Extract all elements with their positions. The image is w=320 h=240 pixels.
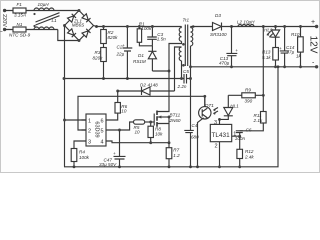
MOSFET BT1 gate bar [153,114,155,126]
svg-text:10k: 10k [155,132,163,137]
svg-text:820k: 820k [93,55,104,60]
svg-text:1k: 1k [296,54,302,59]
resistor R10 [298,37,304,52]
node R13 gnd [274,65,277,68]
svg-text:SR3100: SR3100 [210,32,227,37]
svg-text:R3: R3 [95,50,101,55]
node R8 bottom [149,141,152,144]
svg-text:820k: 820k [108,35,119,40]
wire R4 bottom [73,162,75,167]
node aux bottom [180,77,183,80]
svg-text:1.5n: 1.5n [157,37,166,42]
node collector tap [203,95,206,98]
resistor R2 [101,30,107,44]
wire aux top to D2 [175,47,182,91]
node VCC tap R6 [116,90,119,93]
svg-text:C4: C4 [192,123,198,128]
node C13 top [230,25,233,28]
wire R13 bottom [275,60,277,67]
svg-text:C6: C6 [246,127,252,132]
wire R5 to gate [145,121,155,123]
node C4 gnd [118,165,121,168]
wire R10 [300,27,302,67]
LED HL1 opto [220,95,233,119]
wire snubber return W3 [152,70,169,72]
svg-text:+: + [235,48,238,53]
bridge diode top-left [68,16,74,22]
wire AC top [5,10,34,12]
svg-text:6: 6 [101,119,104,125]
svg-text:L2 10µH: L2 10µH [237,20,255,25]
MOSFET body arrow [157,116,169,118]
svg-text:R10: R10 [291,32,300,37]
node DCminus crossing [63,77,66,80]
svg-text:R7: R7 [173,148,179,153]
wire pin5 to R5 [111,122,134,130]
wire R8 [150,122,152,143]
node drain W3 [168,70,171,73]
svg-text:47µ: 47µ [287,49,295,54]
node C3 top [151,25,154,28]
node body-source [168,116,171,119]
node C2 bottom [126,77,129,80]
diode D3 SR3100 [191,23,232,31]
node C2 top [126,25,129,28]
svg-text:63D39: 63D39 [94,121,100,137]
node C13 bottom [230,65,233,68]
transformer secondary phase dot [192,25,195,28]
resistor R1 snubber [137,29,141,43]
TL431 pin3 stub [219,119,221,124]
node R12 gnd [238,165,241,168]
svg-text:10µH: 10µH [38,2,50,7]
fuse F1 [13,8,26,13]
svg-text:2N60: 2N60 [169,118,181,123]
wire R9 feed vertical [262,27,264,96]
node C14 top [283,25,286,28]
transformer core [185,25,187,67]
current sense line pin4 [111,141,170,143]
bridge diode bottom-right [82,31,88,37]
output terminal plus [315,25,318,28]
svg-text:~: ~ [0,30,3,36]
opto collector lead [204,96,206,106]
TL431 pin2 stub [219,142,221,167]
wire NTC to bridge bottom [54,30,79,41]
bridge diode bottom-left [68,29,74,35]
svg-text:4: 4 [101,140,104,146]
capacitor C5 Y-cap [184,74,187,84]
svg-text:+: + [113,151,116,156]
svg-text:Tr1: Tr1 [183,17,190,22]
node sec 0V tap [189,65,192,68]
resistor R11 [261,112,267,124]
node emitter gnd [196,165,199,168]
node HL1 cathode to TL431 [218,118,221,121]
svg-text:390: 390 [245,99,253,104]
optocoupler OT1 [199,107,211,119]
svg-text:12V: 12V [308,36,319,54]
svg-text:TL431: TL431 [212,132,231,139]
bridge diode top-right [82,14,88,20]
node R9 right junction [262,94,265,97]
IC U1 63D39 box [86,114,106,146]
svg-text:OT1: OT1 [205,103,214,108]
output terminal minus [315,65,318,68]
node R10 bottom [299,65,302,68]
resistor R3 [101,48,107,62]
transformer T1 aux winding [179,47,181,79]
opto light arrows [214,108,219,114]
node C4 tap pin5 [118,129,121,132]
node R12 tap [238,135,241,138]
svg-text:NTC SD-9: NTC SD-9 [9,33,31,38]
transformer T1 primary [169,27,182,72]
svg-text:1: 1 [88,119,91,125]
NTC N1 [13,27,26,32]
node pin2 gnd [218,165,221,168]
wire R6 [111,91,118,120]
svg-text:HL1: HL1 [230,103,239,108]
svg-text:+: + [279,46,282,51]
transformer T1 secondary [191,27,193,131]
node HL2 top [274,25,277,28]
wire DC plus rail [94,26,182,27]
svg-text:RS1M: RS1M [133,59,146,64]
capacitor C14 [280,27,289,67]
input terminal bottom [3,28,6,31]
svg-text:100k: 100k [79,155,90,160]
secondary 0V rail [191,66,317,68]
node R1 top [138,25,141,28]
node R7 gnd [168,165,171,168]
svg-text:100k: 100k [141,26,152,31]
svg-text:5: 5 [101,129,104,135]
node bridge DC plus [95,25,98,28]
inductor 10uH top [34,8,54,10]
resistor R12 [237,149,243,158]
svg-text:220V: 220V [1,14,7,27]
svg-text:10: 10 [135,129,141,134]
svg-text:F1: F1 [17,2,23,7]
wire snubber bottom [139,42,152,46]
svg-text:R12: R12 [245,149,254,154]
wire R7 [168,143,170,167]
MOSFET channel bars [156,111,158,127]
svg-text:33µ 50V: 33µ 50V [99,162,117,167]
node R4 gnd [73,165,76,168]
resistor R9 [242,93,256,98]
inductor L2 10uH [232,25,317,27]
capacitor C2 bulk [123,27,133,79]
svg-text:+: + [311,19,315,26]
ground rail primary+secondary bottom [64,67,278,167]
svg-text:N1: N1 [17,22,23,27]
svg-text:R4: R4 [79,150,85,155]
wire pin3 to R4 [74,141,82,149]
svg-text:2: 2 [215,144,218,150]
svg-text:D2: D2 [140,83,146,88]
IC pin stubs [82,120,111,141]
node R10 top [299,25,302,28]
inductor L1 bottom [34,27,54,30]
input terminal top [3,9,6,12]
svg-text:D3: D3 [215,13,221,18]
svg-text:2.4k: 2.4k [244,155,254,160]
node C4y gnd [189,165,192,168]
svg-text:2.2n: 2.2n [177,84,187,89]
choke phase dot bottom [33,25,35,27]
capacitor C4 680 Y-cap [184,130,194,166]
DC minus distribution wire [64,78,191,80]
svg-text:2: 2 [88,129,91,135]
wire R2R3 chain [103,27,105,79]
TL431 pin1 stub and C6 [232,131,243,136]
node R3 bottom [102,77,105,80]
node pin1 junction [63,119,66,122]
wire AC bottom [5,29,34,31]
capacitor C13 [226,27,237,67]
wire to bridge top [54,10,79,12]
wire pin2 feedback to opto collector [78,96,205,130]
wire pin1 to DCminus [65,119,87,121]
choke phase dot top [33,13,35,15]
svg-text:3.15A: 3.15A [14,12,26,17]
LED HL2 [271,27,279,48]
transformer primary phase dot [182,43,185,46]
svg-text:4148: 4148 [148,83,159,88]
MOSFET drain lead [157,71,169,112]
svg-text:BT11: BT11 [170,113,181,118]
node bridge corner bottom [78,39,81,42]
svg-text:D1: D1 [138,53,144,58]
svg-text:470µ: 470µ [219,60,230,65]
bridge rectifier ZL1 MB6S diamond [65,11,94,41]
diode D1 RS1M [148,46,156,71]
svg-text:680: 680 [191,135,199,140]
resistor R6 [115,103,120,114]
resistor R7 [166,148,172,159]
svg-text:MB6S: MB6S [72,23,85,28]
wire R11 [240,95,264,131]
node bridge corner top [78,9,81,12]
svg-text:100n: 100n [235,136,246,141]
node C5 right sec gnd [189,77,192,80]
svg-text:3: 3 [88,140,91,146]
node rail to 0V [277,65,280,68]
node R8 top [149,121,152,124]
svg-text:+: + [122,43,125,48]
svg-text:HL2: HL2 [264,28,273,33]
node R2 top [102,25,105,28]
node source-CS [168,141,171,144]
resistor R5 [134,120,145,124]
opto emitter lead [198,118,204,167]
MOSFET source lead [157,117,169,143]
svg-text:L1: L1 [52,18,58,23]
svg-text:10: 10 [121,108,127,113]
svg-text:22µ: 22µ [116,52,125,57]
svg-text:R13: R13 [262,50,271,55]
VCC line with diode D2 4148 [118,90,175,92]
node bridge corner left [63,24,66,27]
TL431 U2 box [210,124,231,141]
wire R12 [239,136,241,167]
capacitor C4 vcc bulk [114,130,126,167]
svg-text:2.1k: 2.1k [253,118,263,123]
resistor R4 [71,149,77,162]
node C14 bottom [283,65,286,68]
resistor R13 [273,48,279,61]
svg-text:5.1k: 5.1k [262,55,271,60]
transformer aux phase dot [182,64,185,67]
svg-text:R9: R9 [245,88,251,93]
wire R9 [228,94,263,96]
svg-text:C5: C5 [183,69,189,74]
wire bridge minus down [64,26,66,167]
capacitor C3 snubber [147,27,157,46]
LED HL2 arrows [267,32,273,37]
resistor R8 [148,126,153,137]
svg-text:1.2: 1.2 [173,153,180,158]
choke coupling lines [36,13,60,25]
node R9 feed top [262,25,265,28]
diode D2 [142,87,151,95]
svg-text:3: 3 [214,120,217,126]
